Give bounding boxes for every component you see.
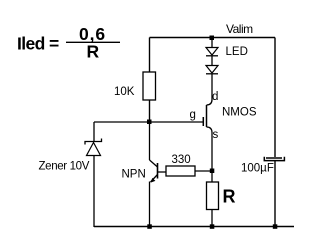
wire 10K bottom to gate node	[149, 100, 151, 122]
svg-text:s: s	[213, 129, 219, 141]
svg-text:Iled =: Iled =	[17, 34, 59, 54]
wire NMOS source to source node	[211, 133, 213, 172]
wire 330 to source node	[195, 170, 212, 172]
wire NPN collector from gate node	[149, 122, 151, 160]
svg-text:LED: LED	[226, 46, 248, 58]
svg-text:100µF: 100µF	[241, 163, 274, 175]
node emitter-rail junction	[147, 224, 152, 229]
svg-text:NPN: NPN	[122, 169, 146, 181]
svg-text:Zener 10V: Zener 10V	[39, 160, 90, 172]
svg-text:R: R	[223, 187, 236, 207]
LED diode D2	[206, 66, 218, 74]
svg-text:NMOS: NMOS	[222, 107, 257, 119]
wire R to bottom rail	[211, 210, 213, 228]
svg-text:Valim: Valim	[226, 22, 253, 36]
svg-text:g: g	[190, 109, 196, 121]
wire gate node down corner to zener	[93, 122, 95, 142]
node source junction	[210, 169, 215, 174]
svg-text:10K: 10K	[114, 86, 135, 98]
node gate junction	[147, 120, 152, 125]
resistor 330	[166, 166, 195, 176]
resistor R	[207, 182, 219, 210]
wire middle branch from top rail to 10K	[149, 38, 151, 73]
node Valim junction	[210, 36, 215, 41]
wire top rail	[150, 37, 276, 39]
node R-rail junction	[210, 224, 215, 229]
wire gate node horizontal zener-to-NMOS-gate	[94, 121, 204, 123]
svg-text:R: R	[87, 41, 100, 61]
LED diode D1	[206, 48, 218, 56]
svg-text:330: 330	[172, 154, 191, 166]
formula Iled = 0,6 / R	[17, 24, 120, 61]
wire NPN emitter to bottom rail	[149, 182, 151, 228]
wire NPN base to 330	[158, 171, 167, 173]
wire bottom rail	[94, 226, 294, 228]
wire source node to R	[211, 171, 213, 182]
wire capacitor to bottom rail	[274, 161, 276, 227]
capacitor 100uF (polarized)	[264, 157, 284, 161]
transistor NMOS	[203, 100, 212, 133]
wire right branch top rail to capacitor	[274, 38, 276, 158]
resistor 10K	[143, 72, 156, 100]
wire between LEDs	[211, 56, 213, 66]
zener diode Zener 10V	[85, 139, 102, 156]
wire Valim node down to LED	[211, 38, 213, 48]
node capacitor-rail junction	[273, 224, 278, 229]
svg-text:d: d	[212, 91, 218, 103]
transistor NPN (mirrored, base bar on right)	[150, 160, 158, 183]
wire zener to bottom rail	[93, 156, 95, 228]
wire LED to NMOS drain	[211, 74, 213, 100]
